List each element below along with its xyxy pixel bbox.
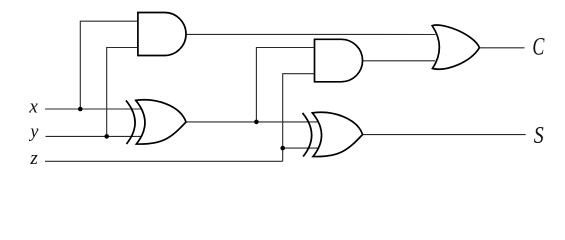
junction dot on x wire <box>78 107 83 112</box>
wire z branch to XOR2 bottom input <box>283 147 318 149</box>
XOR gate 1 (x XOR y) body <box>136 100 186 144</box>
svg-text:y: y <box>28 121 38 141</box>
wire z input <box>45 160 283 162</box>
svg-text:S: S <box>534 122 544 149</box>
svg-text:C: C <box>532 32 545 61</box>
wire x input <box>45 108 141 110</box>
wire x tap to AND1 top input <box>80 21 138 109</box>
wire y input <box>46 135 141 137</box>
svg-text:z: z <box>29 148 38 169</box>
wire y tap to AND1 bottom input <box>107 48 138 137</box>
wire XOR2 output to S <box>363 134 526 136</box>
wire XOR1 output to XOR2 top input <box>186 121 318 123</box>
XOR gate 2 ((x XOR y) XOR z) body <box>312 112 362 156</box>
junction dot on XOR1 output <box>254 120 259 125</box>
AND gate 1 (x AND y) <box>138 13 186 56</box>
AND gate 2 ((x XOR y) AND z) <box>315 39 363 82</box>
wire OR output to C <box>479 47 524 49</box>
svg-text:x: x <box>28 96 38 117</box>
wire AND2 output to OR bottom input <box>363 60 436 62</box>
wire XOR1 tap to AND2 top input <box>256 48 314 122</box>
wire z riser to AND2 bottom input <box>283 74 315 162</box>
wire AND1 output to OR top input <box>186 33 436 35</box>
XOR gate 2 leading arc <box>303 113 312 157</box>
junction dot on z riser <box>280 146 285 151</box>
junction dot on y wire <box>104 134 109 139</box>
XOR gate 1 leading arc <box>126 100 135 144</box>
OR gate (carry out) <box>432 25 479 69</box>
